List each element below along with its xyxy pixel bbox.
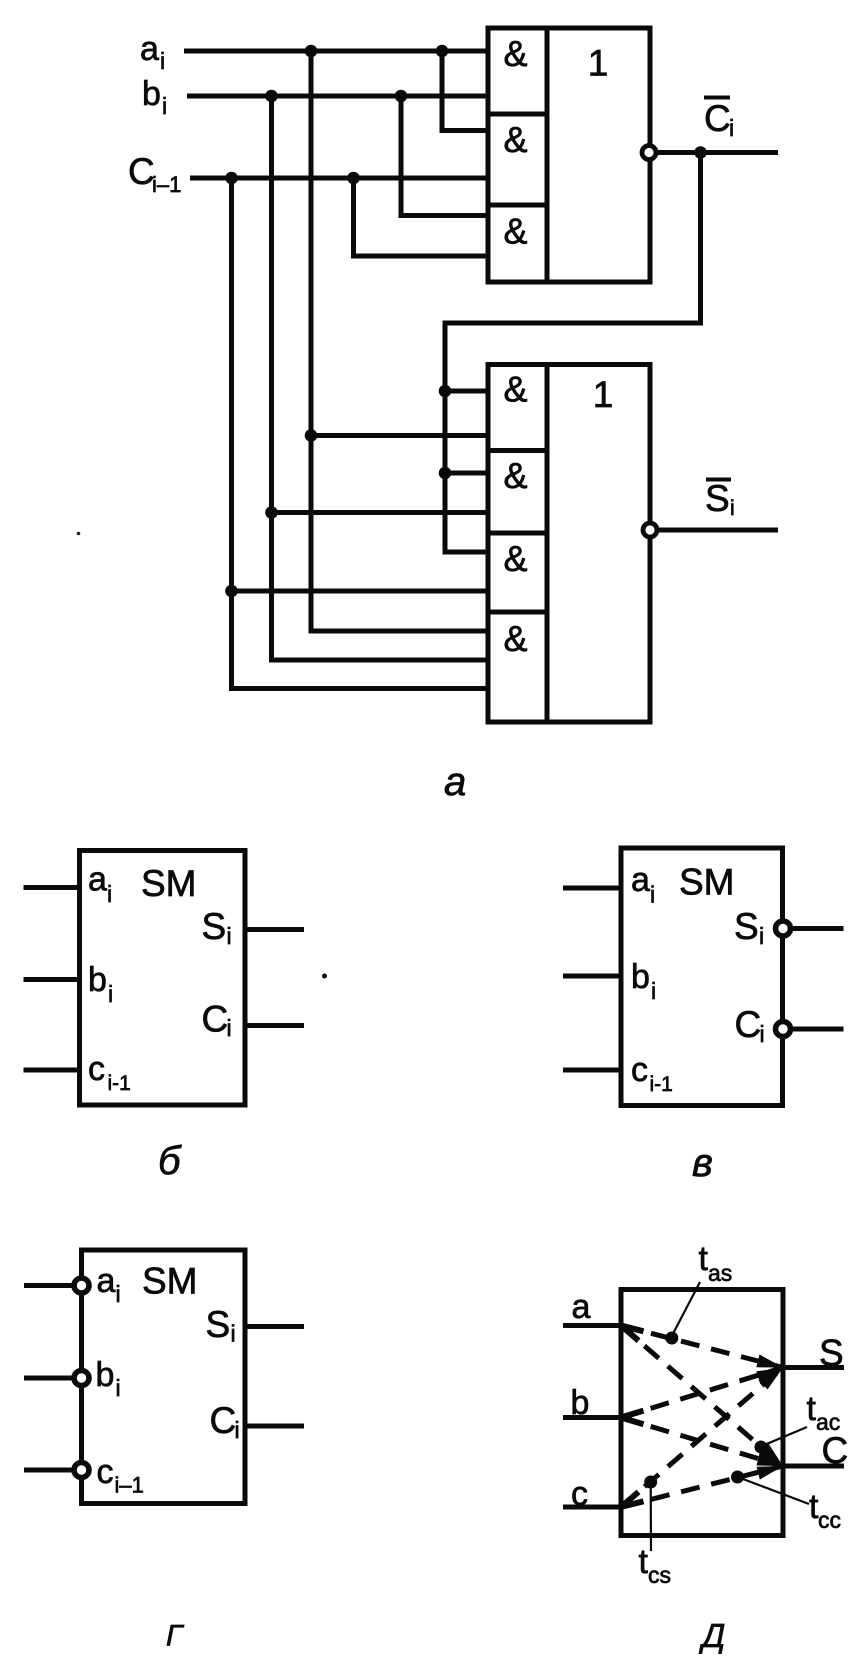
svg-text:S: S xyxy=(734,906,759,947)
gate DD2 AND cell divider 2 xyxy=(488,531,547,536)
wire feedback stub to lower cell2 xyxy=(445,471,488,476)
inversion circle on a_i input of block g xyxy=(74,1278,89,1293)
gate DD1 inversion circle xyxy=(642,146,656,160)
pin label S_i of block g xyxy=(206,1304,236,1347)
wire a_i horizontal xyxy=(184,49,488,54)
gate DD1 AND-OR-NOT block outline xyxy=(488,28,650,282)
leader line t_ac xyxy=(762,1427,807,1446)
wire output C_i of block v xyxy=(793,1027,844,1032)
gate DD2 AND cell divider 1 xyxy=(488,448,547,453)
svg-text:i: i xyxy=(116,1375,121,1401)
wire feedback stub to lower cell1 xyxy=(445,389,488,394)
pin label a_i of block b xyxy=(88,861,112,908)
node S_i output label (inverted) xyxy=(705,478,735,520)
arrow barbs at c input xyxy=(621,1492,644,1507)
wire input c of block d xyxy=(563,1505,621,1510)
wire input b_i of block v xyxy=(563,974,621,979)
svg-text:i: i xyxy=(162,93,167,119)
wire input a_i of block g xyxy=(24,1283,72,1288)
svg-text:i: i xyxy=(160,48,165,74)
svg-text:SM: SM xyxy=(679,862,735,903)
wire feedback from C_i to lower gate xyxy=(445,153,701,553)
svg-text:i-1: i-1 xyxy=(650,1073,673,1096)
leader line t_cs xyxy=(650,1483,652,1551)
svg-text:C: C xyxy=(210,1400,237,1441)
wire output C of block d xyxy=(783,1464,844,1469)
svg-text:b: b xyxy=(142,75,161,113)
dashed delay path c to S xyxy=(621,1368,783,1508)
node b_i input label xyxy=(142,75,167,119)
delay dot t_cc xyxy=(731,1471,744,1484)
svg-text:i–1: i–1 xyxy=(115,1473,144,1498)
svg-text:a: a xyxy=(572,1288,591,1326)
svg-text:&: & xyxy=(503,618,527,659)
node C_i-1 input label xyxy=(128,151,181,197)
pin label C_i of block g xyxy=(210,1400,240,1443)
pin label c_i-1 of block b xyxy=(88,1050,131,1095)
svg-text:i: i xyxy=(730,497,735,520)
junction dots on feedback vertical xyxy=(439,385,452,480)
wire output S_i of block g xyxy=(245,1324,304,1329)
wire input b_i of block g xyxy=(24,1376,72,1381)
wire b_i jog to gate 3rd AND cell xyxy=(401,96,488,216)
pin label a_i of block g xyxy=(97,1262,121,1307)
stray speck xyxy=(322,974,327,979)
arrow barbs at a input xyxy=(621,1326,644,1341)
label t_as xyxy=(699,1240,733,1286)
svg-text:&: & xyxy=(503,33,527,74)
pin label b_i of block b xyxy=(88,961,113,1007)
wire input a_i of block b xyxy=(24,885,80,890)
label t_cc xyxy=(809,1488,841,1533)
svg-text:Г: Г xyxy=(166,1620,185,1653)
svg-text:cc: cc xyxy=(818,1507,841,1533)
dashed delay path b to C xyxy=(621,1418,783,1467)
wire C_i-1 jog to gate 3rd AND cell xyxy=(354,178,489,256)
junction dot on C_i output xyxy=(694,146,707,159)
wire input a_i of block v xyxy=(563,886,621,891)
wire output S_i of block v xyxy=(793,926,844,931)
inversion circle on b_i input of block g xyxy=(74,1371,89,1386)
gate DD2 inversion circle xyxy=(643,523,657,537)
delay diagram block d outline xyxy=(621,1290,783,1536)
wire lower gate cell3 input2 stub xyxy=(232,589,489,594)
node C_i output label (inverted) xyxy=(704,98,734,141)
delay dot t_cs xyxy=(644,1476,657,1489)
delay dot t_ac xyxy=(755,1441,768,1454)
pin label S_i of block b xyxy=(202,906,232,949)
svg-text:1: 1 xyxy=(588,43,609,84)
dashed delay path a to S xyxy=(621,1326,783,1368)
delay dot t_as xyxy=(665,1332,678,1345)
wire output S of block d xyxy=(783,1365,844,1370)
pin label S_i of block v xyxy=(734,906,764,949)
pin label c_i-1 of block v xyxy=(631,1051,673,1096)
wire lower gate cell1 input2 stub xyxy=(311,433,488,438)
wire input c_i-1 of block b xyxy=(24,1068,80,1073)
svg-text:i: i xyxy=(235,1417,240,1443)
svg-text:S: S xyxy=(206,1304,231,1345)
svg-text:SM: SM xyxy=(141,863,197,904)
wire input c_i-1 of block v xyxy=(563,1068,621,1073)
label t_cs xyxy=(639,1543,672,1588)
svg-text:SM: SM xyxy=(142,1261,198,1302)
svg-text:i: i xyxy=(116,1281,121,1307)
wire output C_i of block b xyxy=(245,1023,304,1028)
svg-text:i: i xyxy=(759,923,764,949)
leader line t_cc xyxy=(739,1478,809,1505)
svg-text:b: b xyxy=(96,1356,115,1394)
svg-text:a: a xyxy=(631,861,650,899)
svg-text:б: б xyxy=(158,1139,182,1183)
wire input a of block d xyxy=(563,1323,621,1328)
wire lower gate cell2 input2 stub xyxy=(272,510,489,515)
svg-text:t: t xyxy=(807,1390,817,1428)
svg-text:i: i xyxy=(227,1015,232,1041)
svg-text:C: C xyxy=(202,999,229,1040)
svg-text:S: S xyxy=(819,1333,844,1374)
svg-text:&: & xyxy=(503,210,527,251)
pin label b_i of block g xyxy=(96,1356,121,1401)
inversion circle on c_i-1 input of block g xyxy=(74,1463,89,1478)
dashed delay path a to C xyxy=(621,1326,783,1467)
dashed delay path c to C xyxy=(621,1466,783,1507)
svg-text:i–1: i–1 xyxy=(152,172,181,197)
svg-text:S: S xyxy=(705,478,730,519)
wire output C_i of block g xyxy=(245,1424,304,1429)
svg-text:c: c xyxy=(97,1453,114,1491)
wire output S_i of block b xyxy=(245,927,304,932)
svg-text:b: b xyxy=(631,958,650,996)
svg-text:C: C xyxy=(735,1004,762,1045)
svg-text:i: i xyxy=(650,882,655,908)
svg-text:i-1: i-1 xyxy=(108,1072,131,1095)
svg-text:a: a xyxy=(140,30,159,68)
adder SM block b outline xyxy=(80,851,246,1106)
adder SM block g outline xyxy=(82,1250,246,1504)
wire a_i long vertical to lower gate xyxy=(311,51,488,631)
wire a_i jog to gate 2nd AND cell xyxy=(442,51,488,131)
stray speck 2 xyxy=(77,532,81,536)
arrowheads at C output xyxy=(757,1444,784,1480)
svg-text:i: i xyxy=(729,115,734,141)
pin label C_i of block v xyxy=(735,1004,765,1047)
svg-text:a: a xyxy=(97,1262,116,1300)
gate DD2 AND cell divider 3 xyxy=(488,610,547,615)
svg-text:i: i xyxy=(651,978,656,1004)
svg-text:i: i xyxy=(227,923,232,949)
wire b_i long vertical to lower gate xyxy=(272,96,489,660)
pin label b_i of block v xyxy=(631,958,656,1004)
svg-text:t: t xyxy=(639,1543,649,1581)
svg-text:c: c xyxy=(571,1475,588,1513)
dashed delay path b to S xyxy=(621,1368,783,1418)
wire b_i horizontal xyxy=(187,94,488,99)
inversion circle on C_i output of block v xyxy=(776,1022,791,1037)
pin label C_i of block b xyxy=(202,999,232,1042)
svg-text:b: b xyxy=(88,961,107,999)
wire input b_i of block b xyxy=(24,977,80,982)
svg-text:&: & xyxy=(503,369,527,410)
svg-text:as: as xyxy=(708,1260,732,1286)
label t_ac xyxy=(807,1390,841,1435)
leader line t_as xyxy=(672,1282,700,1336)
svg-text:t: t xyxy=(699,1240,709,1278)
svg-text:а: а xyxy=(444,760,466,804)
svg-text:C: C xyxy=(128,151,155,192)
node a_i input label xyxy=(140,30,165,74)
gate DD2 AND labels xyxy=(503,369,527,660)
pin label c_i-1 of block g xyxy=(97,1453,144,1498)
svg-text:в: в xyxy=(692,1141,713,1185)
gate DD2 column divider xyxy=(545,365,550,723)
wire input b of block d xyxy=(563,1415,621,1420)
svg-text:&: & xyxy=(503,538,527,579)
wire S_i output xyxy=(659,528,778,533)
gate DD1 column divider xyxy=(545,28,550,282)
adder SM block v outline xyxy=(621,848,783,1106)
arrowheads at S output xyxy=(756,1355,783,1390)
wire C_i-1 horizontal xyxy=(190,176,488,181)
svg-text:C: C xyxy=(822,1430,849,1471)
gate DD2 AND-OR-NOT block outline xyxy=(488,365,650,723)
gate DD1 AND cell divider 1 xyxy=(488,112,547,117)
svg-text:1: 1 xyxy=(593,374,614,415)
svg-text:i: i xyxy=(760,1021,765,1047)
inversion circle on S_i output of block v xyxy=(776,921,791,936)
svg-text:&: & xyxy=(503,455,527,496)
svg-text:ac: ac xyxy=(816,1409,840,1435)
junction dots on input rails xyxy=(225,45,448,598)
pin label a_i of block v xyxy=(631,861,655,908)
overbar of C_i xyxy=(704,96,730,100)
gate DD1 AND labels xyxy=(503,33,527,251)
arrow barbs at b input xyxy=(621,1411,644,1425)
overbar of S_i xyxy=(706,478,731,482)
svg-text:b: b xyxy=(571,1384,590,1422)
wire C_i output xyxy=(658,150,778,155)
svg-text:C: C xyxy=(704,98,731,139)
svg-text:i: i xyxy=(107,881,112,907)
wire C_i-1 long vertical to lower gate xyxy=(232,178,489,689)
svg-text:cs: cs xyxy=(648,1562,671,1588)
svg-text:&: & xyxy=(503,119,527,160)
wire input c_i-1 of block g xyxy=(24,1468,72,1473)
svg-text:S: S xyxy=(202,906,227,947)
svg-text:Д: Д xyxy=(698,1617,725,1654)
svg-text:c: c xyxy=(631,1051,648,1089)
gate DD1 AND cell divider 2 xyxy=(488,203,547,208)
svg-text:i: i xyxy=(108,981,113,1007)
svg-text:a: a xyxy=(88,861,107,899)
svg-text:c: c xyxy=(88,1050,105,1088)
svg-text:i: i xyxy=(231,1321,236,1347)
